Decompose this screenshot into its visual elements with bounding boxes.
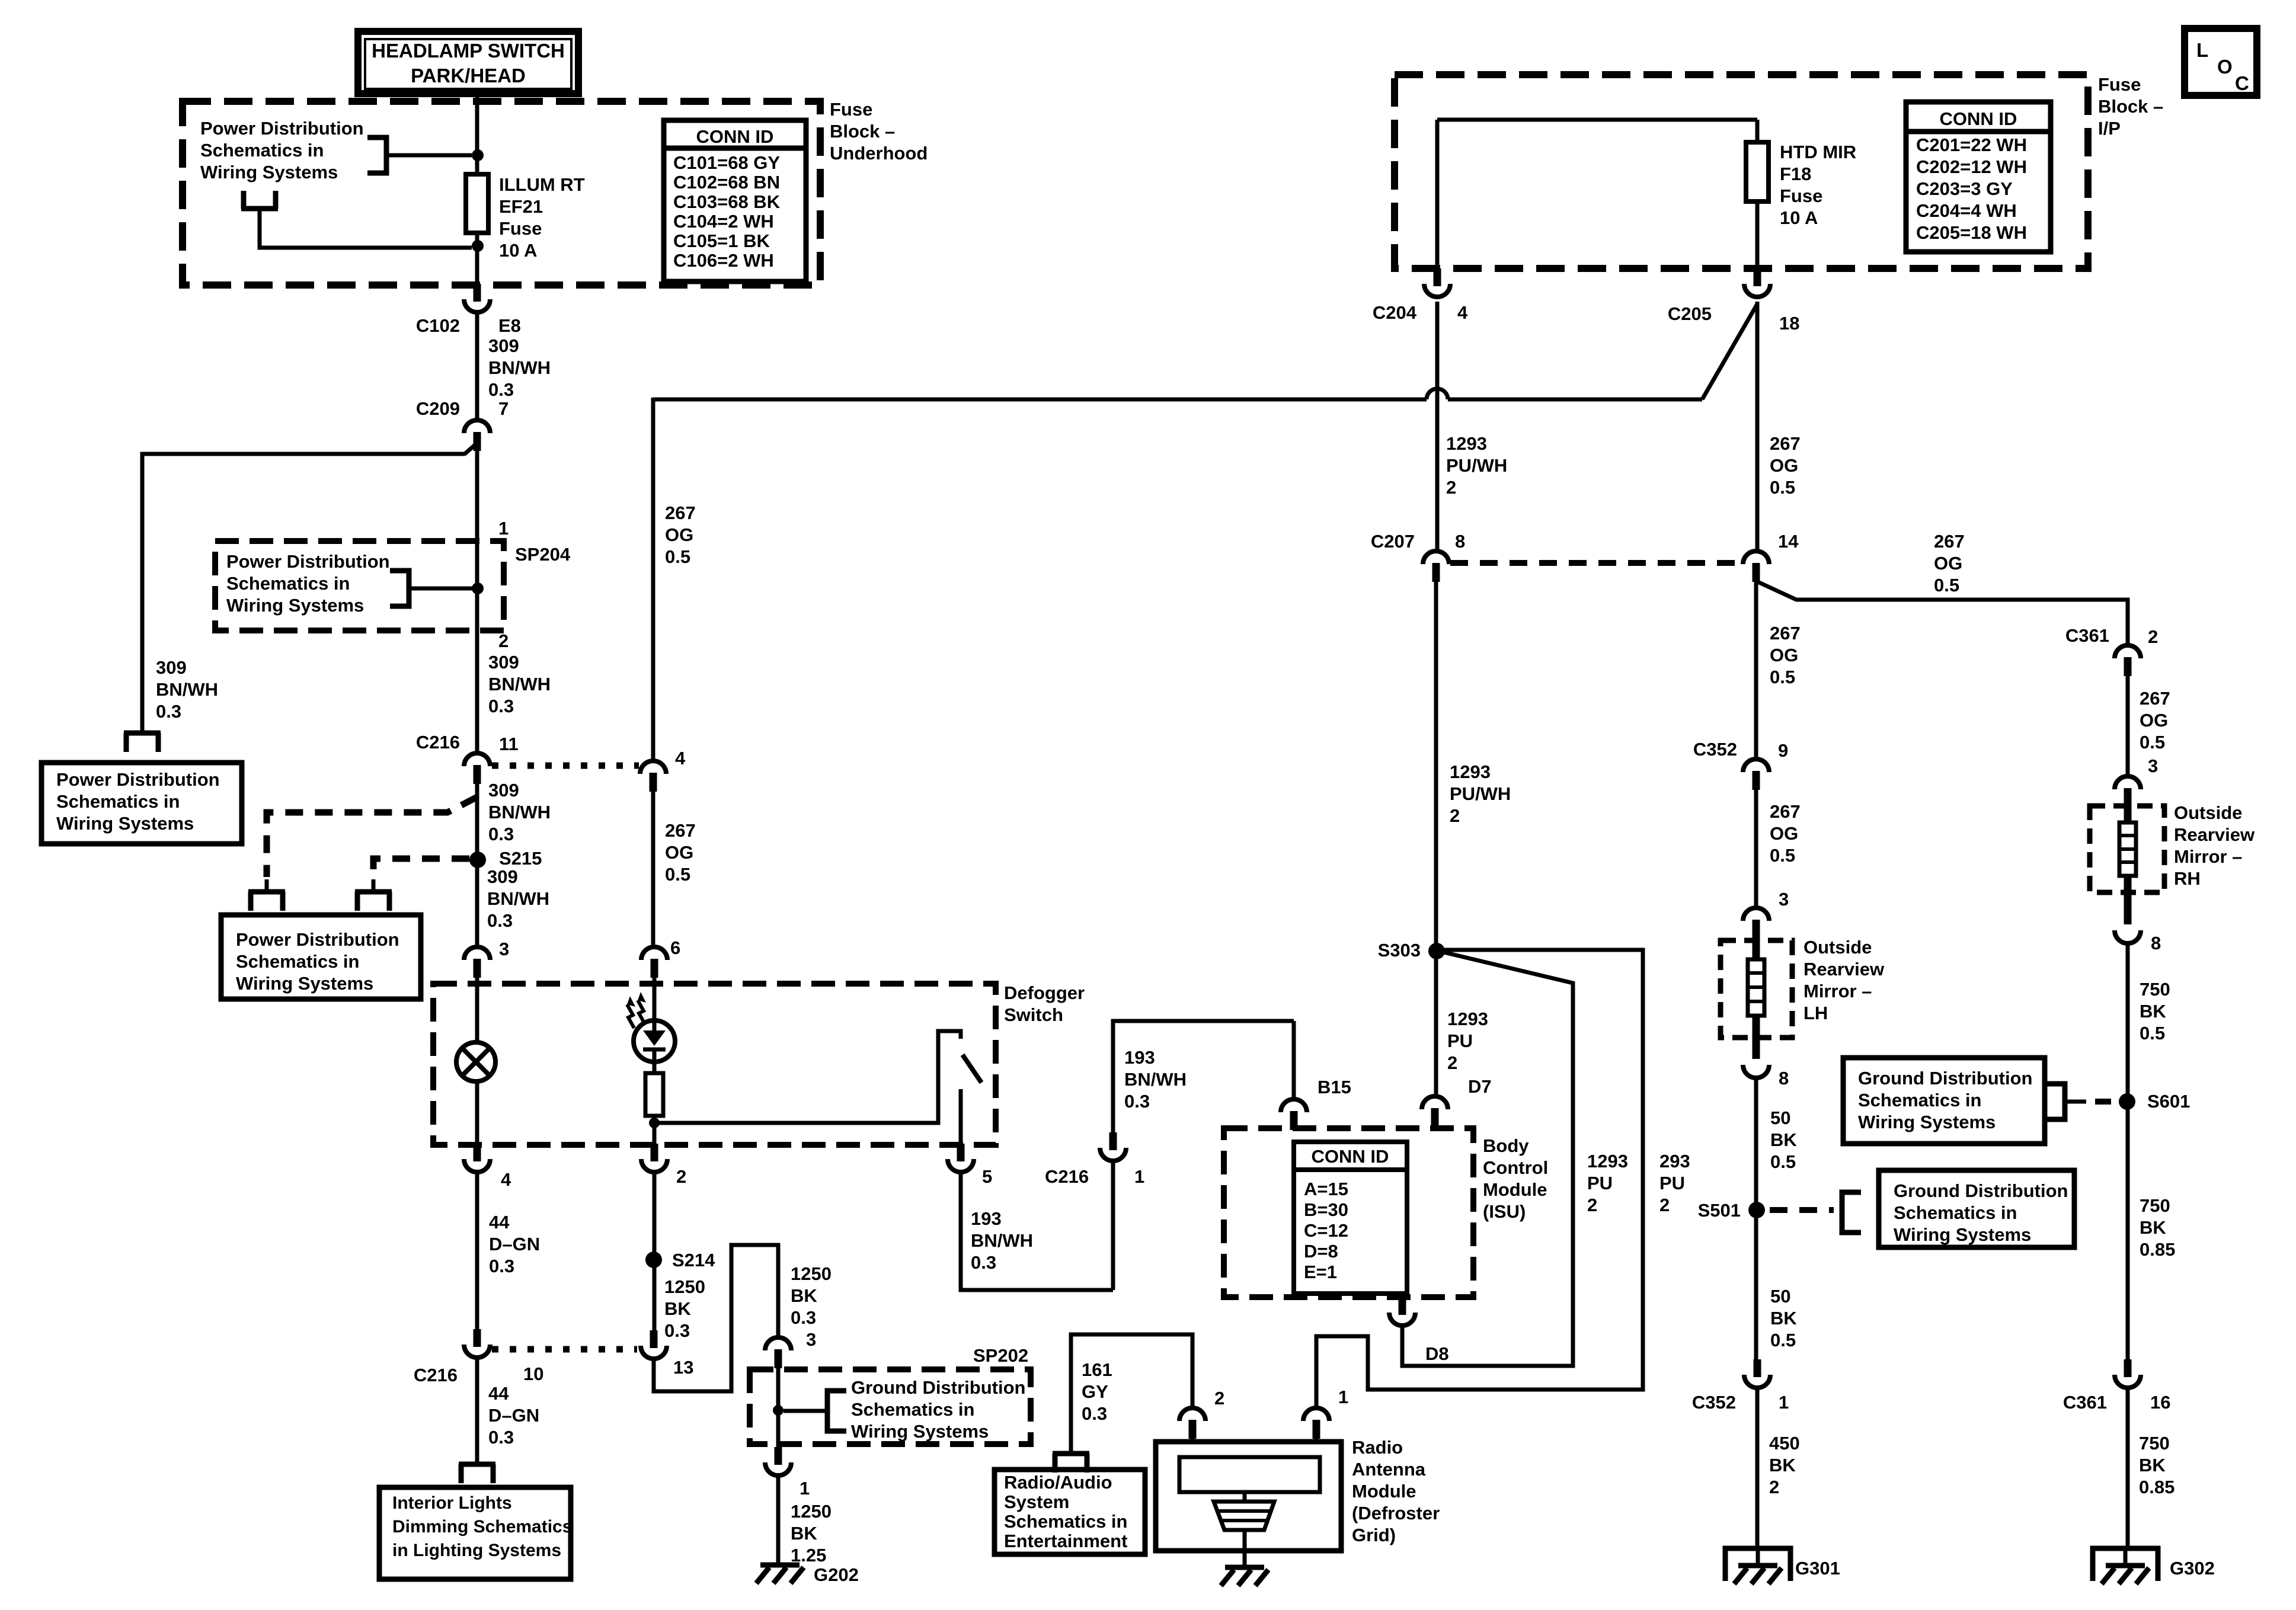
bracket SP204	[390, 571, 409, 606]
svg-text:BK: BK	[2139, 1455, 2166, 1475]
connector 5	[957, 1144, 965, 1161]
svg-text:Rearview: Rearview	[2174, 824, 2255, 845]
connector C205 pin 18	[1754, 268, 1761, 286]
splice node SP202	[776, 1368, 781, 1447]
connector 2	[651, 1144, 658, 1161]
svg-text:BN/WH: BN/WH	[971, 1230, 1033, 1251]
wire into LED	[653, 978, 657, 1020]
svg-text:267: 267	[1770, 801, 1801, 822]
junction node switch feed	[649, 1118, 660, 1128]
svg-text:10 A: 10 A	[499, 240, 537, 261]
box Power Distribution Schematics in Wiring Systems (below S215)	[221, 915, 421, 999]
svg-text:0.3: 0.3	[488, 1427, 514, 1448]
antenna module inner element	[1179, 1457, 1320, 1492]
svg-text:Module: Module	[1483, 1179, 1547, 1200]
svg-text:1293: 1293	[1450, 761, 1491, 782]
svg-text:0.5: 0.5	[1770, 845, 1795, 866]
svg-text:Ground Distribution: Ground Distribution	[1858, 1068, 2032, 1089]
svg-text:F18: F18	[1780, 164, 1811, 184]
svg-text:LH: LH	[1803, 1003, 1828, 1023]
svg-text:50: 50	[1770, 1286, 1790, 1307]
svg-text:CONN ID: CONN ID	[696, 126, 774, 147]
connector 1 below SP202	[775, 1447, 782, 1465]
svg-text:Antenna: Antenna	[1352, 1459, 1426, 1480]
svg-text:HEADLAMP SWITCH: HEADLAMP SWITCH	[372, 40, 565, 62]
svg-text:2: 2	[1447, 1052, 1457, 1073]
svg-text:Module: Module	[1352, 1481, 1416, 1502]
svg-text:C103=68 BK: C103=68 BK	[673, 191, 781, 212]
svg-text:8: 8	[2151, 933, 2161, 953]
wire S303 loop to antenna connector 1 (293 PU)	[1316, 950, 1643, 1409]
wire C216-1 up and over to B15	[1111, 1160, 1115, 1290]
svg-text:309: 309	[487, 866, 518, 887]
svg-text:Grid): Grid)	[1352, 1525, 1396, 1545]
connector 3 into defogger switch	[464, 947, 490, 960]
svg-text:309: 309	[156, 657, 187, 678]
dashed box Fuse Block - Underhood	[183, 101, 820, 285]
ground G302	[2093, 1548, 2158, 1581]
svg-text:OG: OG	[1770, 823, 1798, 844]
svg-text:G301: G301	[1795, 1558, 1840, 1579]
wire D8 loop to S303 (1293 PU)	[1402, 952, 1573, 1366]
svg-text:Fuse: Fuse	[830, 99, 872, 120]
splice S215	[469, 852, 486, 868]
svg-text:0.5: 0.5	[1770, 1151, 1796, 1172]
svg-text:1293: 1293	[1447, 1009, 1488, 1029]
box Ground Distribution Schematics in Wiring Systems (S601)	[1843, 1058, 2045, 1144]
svg-text:161: 161	[1082, 1359, 1112, 1380]
svg-text:Wiring Systems: Wiring Systems	[200, 162, 338, 183]
svg-text:(Defroster: (Defroster	[1352, 1503, 1440, 1523]
svg-text:0.5: 0.5	[665, 864, 690, 885]
connector 1 antenna module	[1303, 1408, 1329, 1421]
svg-text:10: 10	[523, 1363, 543, 1384]
splice S214	[645, 1251, 662, 1268]
svg-text:Power Distribution: Power Distribution	[236, 929, 399, 950]
svg-text:Fuse: Fuse	[2098, 74, 2141, 95]
svg-text:C203=3 GY: C203=3 GY	[1916, 178, 2013, 199]
svg-text:1250: 1250	[791, 1501, 832, 1522]
svg-text:50: 50	[1770, 1108, 1790, 1128]
svg-text:OG: OG	[1770, 645, 1798, 665]
connector C216 pin 1	[1109, 1132, 1117, 1150]
svg-text:C361: C361	[2065, 625, 2109, 646]
svg-text:0.5: 0.5	[1770, 1330, 1796, 1350]
svg-text:BN/WH: BN/WH	[156, 679, 218, 700]
svg-text:0.3: 0.3	[489, 1256, 514, 1276]
connector C204 pin 4	[1434, 268, 1441, 286]
mirror heater element RH	[2124, 807, 2132, 822]
svg-text:4: 4	[1457, 302, 1468, 323]
switch blade	[962, 1055, 981, 1083]
connector C361 pin 16	[2124, 1359, 2132, 1377]
wire hop over C204 wire	[1427, 389, 1448, 399]
svg-text:S303: S303	[1378, 940, 1421, 961]
connector C209 pin 7	[464, 420, 490, 433]
svg-text:Defogger: Defogger	[1004, 982, 1085, 1003]
wire 161 GY from radio box to antenna module pin 2	[1071, 1334, 1192, 1454]
svg-text:11: 11	[499, 734, 519, 754]
svg-text:267: 267	[1934, 531, 1965, 552]
svg-text:(ISU): (ISU)	[1483, 1201, 1526, 1222]
svg-text:D–GN: D–GN	[489, 1234, 540, 1254]
svg-text:Schematics in: Schematics in	[200, 140, 324, 161]
svg-text:Power Distribution: Power Distribution	[226, 551, 390, 572]
wire C216-10 to goalpost	[475, 1358, 479, 1464]
svg-text:in Lighting Systems: in Lighting Systems	[392, 1541, 561, 1560]
svg-text:Dimming Schematics: Dimming Schematics	[392, 1517, 572, 1537]
ground below antenna module	[1225, 1565, 1264, 1570]
fuse EF21 ILLUM RT 10A	[466, 174, 488, 233]
svg-text:BN/WH: BN/WH	[487, 888, 549, 909]
dashed link C207-8 to 14	[1450, 560, 1741, 566]
illumination lamp	[456, 1042, 495, 1081]
ground G301	[1725, 1548, 1790, 1581]
svg-text:44: 44	[489, 1212, 510, 1233]
svg-text:L: L	[2196, 39, 2208, 61]
wire C204 down to D7	[1435, 302, 1440, 551]
svg-text:0.3: 0.3	[488, 696, 514, 716]
svg-text:OG: OG	[1770, 455, 1798, 476]
box Radio Antenna Module (Defroster Grid)	[1156, 1442, 1341, 1551]
svg-text:C216: C216	[414, 1365, 458, 1385]
wire branch to power distribution box	[142, 454, 465, 733]
svg-text:3: 3	[2148, 756, 2158, 776]
svg-text:BN/WH: BN/WH	[1124, 1069, 1187, 1090]
svg-text:0.5: 0.5	[1770, 477, 1795, 498]
svg-text:0.3: 0.3	[488, 379, 514, 400]
bracket SP202	[827, 1391, 846, 1431]
dashed box Outside Rearview Mirror - LH	[1721, 940, 1792, 1038]
wire to C216-11	[475, 630, 479, 753]
connector 3 mirror RH	[2115, 776, 2141, 789]
svg-text:C205=18 WH: C205=18 WH	[1916, 222, 2027, 243]
svg-text:2: 2	[1769, 1477, 1779, 1497]
splice S601	[2119, 1093, 2135, 1110]
wire C209 to SP204	[475, 441, 479, 541]
svg-text:2: 2	[498, 630, 509, 651]
svg-text:8: 8	[1779, 1068, 1789, 1089]
svg-text:I/P: I/P	[2098, 118, 2121, 139]
wire 750 BK to S601	[2126, 943, 2130, 1359]
resistor in defogger switch	[645, 1073, 663, 1116]
svg-text:2: 2	[1659, 1195, 1670, 1215]
defroster grid trapezoid	[1214, 1502, 1274, 1530]
LOC logo box	[2185, 28, 2257, 95]
svg-text:B15: B15	[1318, 1077, 1351, 1097]
svg-text:1250: 1250	[664, 1276, 705, 1297]
component box HEADLAMP SWITCH PARK/HEAD	[358, 31, 578, 94]
wire jog from 13 over to connector 3	[654, 1245, 778, 1391]
dashed box Fuse Block - I/P	[1395, 75, 2088, 268]
node junction at fuse bottom	[472, 240, 484, 252]
wire connector 5 to connector 1 of C216	[961, 1172, 1113, 1290]
wire C216-11 to S215	[475, 784, 479, 947]
wire goalpost to fuse bottom	[260, 209, 472, 248]
wire down second column	[651, 398, 655, 761]
svg-text:BK: BK	[1770, 1129, 1797, 1150]
svg-text:0.3: 0.3	[664, 1320, 690, 1341]
svg-text:2: 2	[2148, 626, 2158, 647]
goalpost above radio box	[1053, 1451, 1089, 1457]
svg-text:2: 2	[1214, 1388, 1224, 1409]
svg-text:Wiring Systems: Wiring Systems	[56, 813, 194, 834]
svg-text:C361: C361	[2063, 1392, 2107, 1413]
wire 750 BK to G302	[2126, 1388, 2130, 1546]
svg-text:267: 267	[2140, 688, 2170, 709]
connector C361 pin 2	[2115, 645, 2141, 658]
svg-text:Radio/Audio: Radio/Audio	[1004, 1472, 1112, 1493]
svg-text:3: 3	[1779, 889, 1789, 910]
svg-text:A=15: A=15	[1304, 1179, 1348, 1199]
svg-text:HTD MIR: HTD MIR	[1780, 142, 1856, 162]
connector D7	[1422, 1096, 1448, 1109]
dashed box Outside Rearview Mirror - RH	[2090, 806, 2164, 892]
svg-text:Schematics in: Schematics in	[56, 791, 180, 812]
wire 14 to C352-9	[1754, 582, 1758, 759]
svg-text:C102: C102	[416, 315, 460, 336]
svg-text:0.3: 0.3	[971, 1252, 996, 1273]
svg-text:System: System	[1004, 1491, 1069, 1512]
svg-text:2: 2	[1446, 477, 1456, 498]
connector 4 (dotted from C216-11)	[640, 761, 666, 774]
svg-text:18: 18	[1779, 313, 1799, 334]
svg-text:0.85: 0.85	[2139, 1477, 2175, 1497]
svg-text:Mirror –: Mirror –	[1803, 981, 1872, 1001]
svg-text:0.3: 0.3	[487, 910, 513, 931]
svg-text:CONN ID: CONN ID	[1312, 1146, 1389, 1167]
goalpost to interior lights	[459, 1462, 495, 1467]
svg-text:BK: BK	[664, 1298, 691, 1319]
svg-text:0.3: 0.3	[1124, 1091, 1150, 1112]
svg-text:Ground Distribution: Ground Distribution	[1894, 1180, 2068, 1201]
svg-text:PU/WH: PU/WH	[1446, 455, 1507, 476]
wire B15 riser	[1292, 1021, 1296, 1099]
svg-text:Switch: Switch	[1004, 1004, 1063, 1025]
svg-text:BN/WH: BN/WH	[488, 674, 551, 694]
svg-text:ILLUM RT: ILLUM RT	[499, 174, 585, 195]
svg-text:Schematics in: Schematics in	[1858, 1090, 1981, 1110]
connector 2 antenna module	[1179, 1408, 1205, 1421]
svg-text:C352: C352	[1692, 1392, 1736, 1413]
goalpost to power distribution reference	[124, 731, 161, 736]
CONN ID table (underhood)	[664, 120, 806, 281]
connector 8 mirror RH	[2115, 930, 2141, 943]
svg-text:BK: BK	[1770, 1308, 1797, 1329]
svg-text:750: 750	[2139, 1433, 2170, 1454]
svg-text:0.3: 0.3	[1082, 1403, 1107, 1424]
box Interior Lights Dimming Schematics in Lighting Systems	[379, 1487, 571, 1579]
svg-text:C101=68 GY: C101=68 GY	[673, 152, 780, 173]
svg-text:S215: S215	[499, 848, 542, 869]
connector D8	[1399, 1297, 1406, 1315]
svg-text:OG: OG	[1934, 553, 1962, 574]
svg-text:16: 16	[2150, 1392, 2170, 1413]
svg-text:S214: S214	[672, 1250, 715, 1270]
svg-text:1293: 1293	[1446, 433, 1487, 454]
svg-text:SP202: SP202	[973, 1345, 1028, 1366]
svg-text:Block –: Block –	[2098, 96, 2163, 117]
goalpost A	[248, 889, 285, 895]
wire diagonal from 14 to C361 branch	[1758, 582, 2128, 645]
svg-text:13: 13	[673, 1357, 693, 1378]
svg-text:Body: Body	[1483, 1135, 1529, 1156]
wire 44 D-GN to C216-10	[475, 1172, 479, 1329]
svg-text:1: 1	[1779, 1392, 1789, 1413]
connector C352 pin 9	[1743, 759, 1769, 772]
svg-text:0.5: 0.5	[2140, 732, 2165, 753]
svg-text:C104=2 WH: C104=2 WH	[673, 211, 774, 232]
goalpost B	[355, 889, 392, 895]
svg-text:3: 3	[499, 939, 509, 959]
bracket S601	[2046, 1084, 2065, 1119]
svg-text:1: 1	[498, 518, 509, 539]
svg-text:Outside: Outside	[1803, 937, 1872, 958]
dashed branch A from wire above S215	[267, 797, 477, 877]
svg-text:0.3: 0.3	[156, 701, 181, 722]
svg-text:PU: PU	[1447, 1030, 1473, 1051]
svg-text:750: 750	[2140, 1195, 2170, 1216]
svg-text:0.5: 0.5	[1934, 575, 1959, 596]
svg-text:Fuse: Fuse	[499, 218, 542, 239]
svg-text:Schematics in: Schematics in	[851, 1399, 974, 1420]
svg-text:D=8: D=8	[1304, 1241, 1338, 1262]
svg-text:Outside: Outside	[2174, 802, 2242, 823]
wire diagonal up to C205	[1702, 304, 1757, 399]
svg-text:193: 193	[971, 1208, 1002, 1229]
svg-text:C202=12 WH: C202=12 WH	[1916, 156, 2027, 177]
svg-text:309: 309	[488, 780, 519, 801]
connector 13	[650, 1330, 658, 1348]
connector B15	[1281, 1099, 1307, 1112]
svg-text:Wiring Systems: Wiring Systems	[851, 1421, 989, 1442]
svg-text:RH: RH	[2174, 868, 2201, 889]
svg-text:293: 293	[1659, 1151, 1690, 1172]
svg-text:C204: C204	[1373, 302, 1417, 323]
svg-text:BK: BK	[2140, 1001, 2166, 1022]
connector 8 mirror LH	[1743, 1065, 1769, 1078]
box Ground Distribution Schematics in Wiring Systems (S501)	[1879, 1170, 2074, 1247]
svg-text:Wiring Systems: Wiring Systems	[1858, 1112, 1996, 1132]
svg-text:Underhood: Underhood	[830, 143, 928, 164]
svg-text:C105=1 BK: C105=1 BK	[673, 231, 770, 251]
svg-text:450: 450	[1769, 1433, 1800, 1454]
fuse F18 HTD MIR 10A	[1746, 142, 1769, 201]
switch lower contact	[959, 1089, 963, 1145]
svg-text:Wiring Systems: Wiring Systems	[226, 595, 364, 616]
svg-text:E8: E8	[498, 315, 521, 336]
splice S501	[1748, 1202, 1765, 1218]
svg-text:0.5: 0.5	[665, 546, 690, 567]
svg-text:Schematics in: Schematics in	[1004, 1511, 1127, 1532]
box Power Distribution Schematics in Wiring Systems (left)	[41, 763, 242, 844]
wire to connector 6	[651, 792, 655, 947]
off-page goalpost inside fuse block	[241, 206, 278, 212]
wire horizontal bus from C205 to LED column	[653, 398, 1427, 402]
svg-text:OG: OG	[665, 524, 693, 545]
svg-text:Schematics in: Schematics in	[226, 573, 350, 594]
wire from headlamp switch to fuse EF21	[475, 94, 479, 174]
wire 1250 BK 1.25 to G202	[776, 1475, 781, 1565]
svg-text:BK: BK	[791, 1523, 817, 1544]
connector C352 pin 1	[1754, 1359, 1761, 1377]
svg-text:Schematics in: Schematics in	[1894, 1202, 2017, 1223]
wire to mirror RH	[2126, 676, 2130, 776]
svg-text:C352: C352	[1693, 739, 1737, 760]
svg-text:267: 267	[1770, 433, 1801, 454]
box Radio/Audio System Schematics in Entertainment	[994, 1470, 1145, 1554]
svg-text:750: 750	[2140, 979, 2170, 1000]
svg-text:S601: S601	[2147, 1091, 2190, 1112]
svg-text:BK: BK	[2140, 1217, 2166, 1238]
svg-text:PU: PU	[1659, 1173, 1685, 1193]
svg-text:Power Distribution: Power Distribution	[56, 769, 220, 790]
svg-text:6: 6	[670, 937, 680, 958]
svg-text:Schematics in: Schematics in	[236, 951, 359, 972]
svg-text:PARK/HEAD: PARK/HEAD	[411, 65, 526, 87]
connector 6 into defogger switch	[641, 947, 667, 960]
svg-text:0.3: 0.3	[488, 824, 514, 844]
svg-text:OG: OG	[665, 842, 693, 863]
svg-text:309: 309	[488, 652, 519, 673]
connector C102 pin E8	[474, 284, 481, 302]
svg-text:CONN ID: CONN ID	[1940, 108, 2017, 129]
bracket S501	[1842, 1192, 1861, 1233]
svg-text:Radio: Radio	[1352, 1437, 1403, 1458]
svg-text:Power Distribution: Power Distribution	[200, 118, 364, 139]
svg-text:Block –: Block –	[830, 121, 895, 142]
CONN ID table (BCM)	[1294, 1142, 1407, 1294]
svg-text:0.85: 0.85	[2140, 1239, 2175, 1260]
svg-text:C: C	[2235, 72, 2249, 94]
wire 1250 BK below connector 2	[653, 1172, 657, 1330]
dashed branch B from S215	[373, 859, 469, 877]
svg-text:Rearview: Rearview	[1803, 959, 1885, 980]
svg-text:D–GN: D–GN	[488, 1405, 539, 1426]
svg-text:G202: G202	[814, 1564, 859, 1585]
svg-text:B=30: B=30	[1304, 1199, 1348, 1220]
wire to mirror LH	[1754, 790, 1758, 908]
svg-text:C106=2 WH: C106=2 WH	[673, 250, 774, 271]
connector C216 pin 10	[474, 1329, 481, 1347]
svg-text:0.5: 0.5	[1770, 667, 1795, 687]
dashed tap S501	[1770, 1207, 1834, 1213]
svg-text:1: 1	[1338, 1387, 1348, 1407]
wires inside fuse block I/P	[1437, 118, 1757, 122]
svg-text:C201=22 WH: C201=22 WH	[1916, 135, 2027, 155]
svg-text:Interior Lights: Interior Lights	[392, 1493, 512, 1513]
svg-text:PU/WH: PU/WH	[1450, 783, 1511, 804]
svg-text:7: 7	[498, 398, 509, 419]
connector 3 into SP202	[765, 1337, 791, 1350]
splice S303	[1428, 943, 1445, 959]
svg-text:0.5: 0.5	[2140, 1023, 2165, 1044]
wire 309 BN/WH segment	[475, 312, 479, 420]
svg-text:S501: S501	[1698, 1200, 1741, 1221]
svg-text:C207: C207	[1371, 531, 1415, 552]
svg-text:10 A: 10 A	[1780, 207, 1818, 228]
svg-text:E=1: E=1	[1304, 1262, 1337, 1282]
svg-text:C=12: C=12	[1304, 1220, 1348, 1241]
svg-text:5: 5	[982, 1166, 992, 1187]
svg-text:OG: OG	[2140, 710, 2168, 731]
wire resistor to junction	[653, 1116, 657, 1145]
svg-text:Mirror –: Mirror –	[2174, 846, 2242, 867]
wire into lamp	[475, 978, 479, 1043]
dotted link C216-10 to connector 13	[492, 1346, 637, 1353]
svg-text:G302: G302	[2170, 1558, 2215, 1579]
svg-text:267: 267	[1770, 623, 1801, 644]
